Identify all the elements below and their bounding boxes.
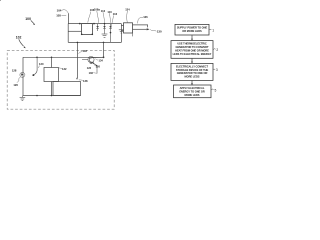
- LED D3: [109, 24, 111, 43]
- ref numeral 134b: [99, 59, 104, 63]
- storage box B1: [44, 68, 59, 82]
- stub below U2: [131, 33, 133, 36]
- svg-text:MORE LEDS: MORE LEDS: [185, 75, 200, 79]
- wire rail to B1: [51, 57, 53, 67]
- ref numeral 118: [83, 49, 88, 53]
- leader 106: [88, 12, 91, 23]
- ref numeral 116: [113, 12, 118, 16]
- driver box U1: [82, 24, 93, 35]
- svg-text:HEAT FROM ONE OR MORE: HEAT FROM ONE OR MORE: [175, 48, 209, 52]
- node label 104a: [57, 9, 62, 13]
- node dot U1 bottom-left: [81, 34, 83, 36]
- leader arrow for 100: [31, 20, 35, 25]
- wire U1 rect to U2 upper: [121, 24, 123, 26]
- ref numeral 132: [62, 67, 67, 71]
- svg-text:120: 120: [39, 62, 44, 66]
- ref numeral 108a: [94, 8, 100, 12]
- ground G3: [20, 96, 26, 101]
- svg-text:134: 134: [125, 8, 130, 12]
- inner bottom rail: [23, 95, 81, 97]
- ref numeral 112: [101, 9, 106, 13]
- svg-text:ELECTRICALLY CONNECT: ELECTRICALLY CONNECT: [176, 64, 208, 68]
- svg-text:ENERGY TO ONE OR: ENERGY TO ONE OR: [179, 90, 205, 94]
- TEG box: [53, 82, 81, 96]
- svg-text:118: 118: [83, 49, 88, 53]
- node dot B1 bottom: [51, 95, 53, 97]
- svg-text:136: 136: [89, 71, 94, 75]
- node dot mid-rail: [104, 23, 106, 25]
- node dot right of U1: [93, 23, 95, 25]
- leader dash 132: [59, 67, 62, 70]
- leader 134: [126, 11, 129, 22]
- svg-text:102: 102: [16, 36, 22, 40]
- svg-text:136: 136: [143, 15, 148, 19]
- leader for 104b: [61, 14, 66, 16]
- tag 3: [213, 68, 218, 72]
- wire 118 drop: [76, 42, 78, 80]
- svg-text:108a: 108a: [94, 8, 100, 12]
- leader 136: [137, 17, 143, 23]
- leader 130: [150, 29, 156, 31]
- leader 120: [38, 66, 39, 68]
- connector 2-3: [191, 58, 193, 63]
- svg-text:126: 126: [96, 64, 101, 68]
- inner left edge: [22, 57, 24, 95]
- svg-text:138: 138: [83, 79, 88, 83]
- svg-text:STORAGE DEVICE OF THE: STORAGE DEVICE OF THE: [176, 68, 209, 72]
- transistor Q2: [82, 56, 104, 73]
- svg-text:USE THERMOELECTRIC: USE THERMOELECTRIC: [177, 42, 207, 46]
- svg-text:110: 110: [107, 10, 112, 14]
- wire U2 output upper: [133, 25, 148, 28]
- node dot rail-C: [103, 56, 105, 58]
- wire U1 rect to U2 lower: [121, 30, 123, 32]
- node dot U1 bottom-right: [92, 34, 94, 36]
- ground G2 at right edge: [119, 30, 124, 33]
- ref numeral 136: [143, 15, 148, 19]
- LED D4: [0, 0, 25, 77]
- ref numeral 124: [90, 61, 95, 65]
- node label 104b: [56, 13, 61, 17]
- LED D2: [103, 24, 105, 32]
- svg-text:104: 104: [57, 9, 62, 13]
- connector 1-2: [191, 35, 193, 41]
- ref numeral 138: [83, 79, 88, 83]
- enclosure label 102: [16, 36, 22, 40]
- node dot Q1 bottom: [36, 95, 38, 97]
- svg-text:105: 105: [56, 13, 61, 17]
- converter box U2: [124, 23, 133, 33]
- wire right edge: [120, 24, 122, 43]
- wire second feed to U1: [68, 30, 81, 32]
- dashed enclosure 102: [7, 50, 114, 109]
- svg-text:122: 122: [87, 66, 92, 70]
- wire left edge: [67, 24, 69, 43]
- svg-text:GENERATOR TO ONE OR: GENERATOR TO ONE OR: [177, 71, 208, 75]
- svg-text:126: 126: [13, 83, 18, 87]
- svg-text:134: 134: [99, 59, 104, 63]
- transistor Q1: [32, 57, 37, 76]
- svg-text:GENERATOR TO CONVERT: GENERATOR TO CONVERT: [175, 45, 208, 49]
- leader for 104a: [62, 10, 69, 14]
- leader 126b: [94, 64, 96, 66]
- ref numeral 136b: [89, 71, 94, 75]
- wire drop to Q2: [103, 42, 105, 57]
- svg-text:OR MORE LEDS: OR MORE LEDS: [182, 29, 202, 33]
- svg-text:3: 3: [216, 68, 218, 72]
- leader 138: [79, 79, 83, 81]
- svg-text:132: 132: [62, 67, 67, 71]
- tag 5: [211, 89, 216, 93]
- wire bottom rail: [68, 41, 121, 43]
- node dot rail-B: [51, 57, 53, 59]
- node dot D3 bottom: [110, 32, 112, 34]
- ref numeral 106: [90, 8, 95, 12]
- svg-text:124: 124: [90, 61, 95, 65]
- ref numeral 120: [39, 62, 44, 66]
- node dot rail-A: [36, 57, 38, 59]
- leader 108a: [97, 11, 99, 23]
- wire input stub: [67, 13, 69, 23]
- wire top rail: [68, 23, 121, 25]
- svg-text:MORE LEDS: MORE LEDS: [185, 93, 200, 97]
- ref numeral 126a: [13, 83, 18, 87]
- connector 3-4: [191, 80, 193, 85]
- svg-text:2: 2: [216, 48, 218, 52]
- flowchart box 1: [175, 24, 209, 35]
- ref numeral 110: [107, 10, 112, 14]
- LED D1: [96, 24, 98, 31]
- leader 112: [103, 12, 104, 23]
- tag 2: [213, 48, 218, 52]
- wire U2 output lower with arrow 130: [133, 28, 150, 30]
- ref numeral 134: [125, 8, 130, 12]
- svg-text:128: 128: [12, 68, 17, 72]
- ref numeral 122: [87, 66, 92, 70]
- leader 118: [78, 51, 82, 53]
- wire B1 to bottom rail: [51, 82, 53, 96]
- figure reference numeral 100: [25, 17, 31, 21]
- inner top rail: [23, 56, 104, 58]
- ref numeral 126b: [96, 64, 101, 68]
- flowchart box 3: [171, 63, 213, 80]
- ground G1: [102, 31, 108, 37]
- node dot rail-X: [103, 42, 105, 44]
- ref numeral 128: [12, 68, 17, 72]
- leader 116: [111, 15, 114, 28]
- node dot left of U1: [79, 23, 81, 25]
- svg-text:130: 130: [157, 29, 162, 33]
- leader 110: [109, 13, 110, 23]
- ref numeral 130: [157, 29, 162, 33]
- svg-text:5: 5: [215, 89, 217, 93]
- flowchart box 2: [171, 41, 213, 59]
- tag 1: [209, 28, 214, 32]
- flowchart box 4: [174, 85, 212, 98]
- svg-text:1: 1: [212, 28, 214, 32]
- node dot 118 top: [77, 42, 79, 44]
- leader arrow for 102: [19, 39, 26, 48]
- leader 136b: [93, 72, 97, 75]
- leader 126a: [17, 77, 21, 83]
- svg-text:100: 100: [25, 17, 31, 21]
- leader 134b: [95, 59, 98, 61]
- svg-text:SUPPLY POWER TO ONE: SUPPLY POWER TO ONE: [177, 26, 208, 30]
- svg-text:APPLY ELECTRICAL: APPLY ELECTRICAL: [180, 86, 205, 90]
- svg-text:LEDS TO ELECTRICAL ENERGY: LEDS TO ELECTRICAL ENERGY: [173, 52, 212, 56]
